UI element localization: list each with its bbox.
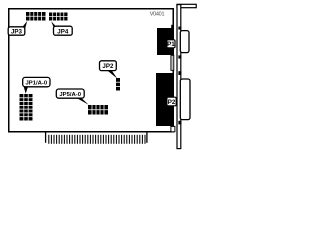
connector P2 jack screw top: [178, 71, 181, 75]
connector P2 body: [156, 73, 174, 126]
spacer bar between P1 and P2: [171, 55, 174, 70]
connector P2 face: [180, 79, 190, 120]
connector P1 jack screw bottom: [178, 55, 181, 58]
connector P2 jack screw bottom: [178, 121, 181, 125]
bracket: [177, 4, 196, 148]
callout label JP2: [100, 61, 118, 79]
jumper JP2 pins: [116, 78, 120, 91]
svg-text:P2: P2: [168, 99, 176, 106]
jumper block JP3: [26, 12, 46, 21]
jumper block JP5: [88, 105, 108, 115]
jumper block JP4: [49, 13, 68, 21]
jumper block JP1: [20, 94, 33, 121]
label P1: [167, 40, 175, 48]
svg-text:JP2: JP2: [102, 63, 114, 70]
callout label JP4: [51, 21, 72, 35]
svg-text:JP5/A-0: JP5/A-0: [59, 92, 81, 98]
callout label JP3: [8, 21, 27, 36]
callout label JP1/A-0: [23, 77, 50, 93]
label P2: [167, 97, 176, 106]
svg-text:JP4: JP4: [57, 28, 69, 35]
card outline: [9, 9, 174, 132]
svg-text:P1: P1: [167, 41, 175, 48]
text V0401: [150, 11, 165, 17]
svg-text:V0401: V0401: [150, 11, 165, 17]
svg-text:JP3: JP3: [11, 29, 23, 36]
svg-text:JP1/A-0: JP1/A-0: [25, 81, 47, 87]
connector P1 face: [180, 31, 189, 53]
connector P1 body: [157, 25, 174, 55]
connector P1 jack screw top: [178, 27, 181, 30]
mounting tab below P2: [171, 126, 175, 131]
edge connector comb: [46, 132, 147, 143]
callout label JP5/A-0: [56, 89, 88, 105]
